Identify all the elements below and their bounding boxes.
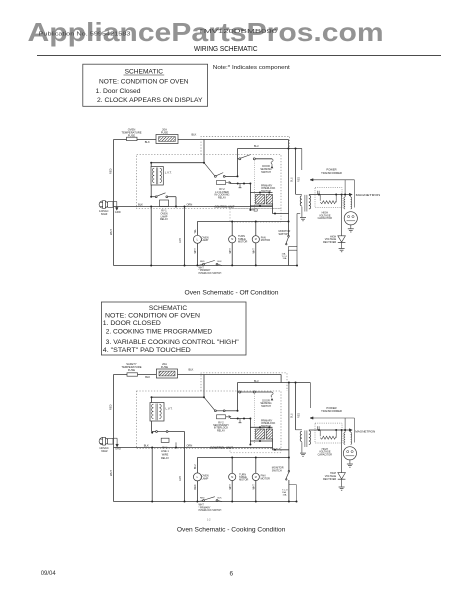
svg-text:GRY: GRY — [179, 237, 182, 243]
svg-text:WHT: WHT — [109, 470, 113, 476]
svg-text:FUSE: FUSE — [128, 368, 135, 372]
svg-text:MOTOR: MOTOR — [239, 479, 248, 482]
svg-text:ORN: ORN — [187, 202, 193, 206]
svg-text:BLK: BLK — [144, 443, 149, 447]
svg-text:BLK: BLK — [145, 140, 150, 144]
svg-text:RED: RED — [195, 484, 197, 489]
svg-text:WHT: WHT — [195, 248, 197, 254]
svg-text:MAGNETRON: MAGNETRON — [355, 430, 375, 434]
svg-text:1. DOOR CLOSED: 1. DOOR CLOSED — [103, 320, 161, 327]
svg-text:MOTOR: MOTOR — [261, 477, 270, 480]
svg-text:LAMP: LAMP — [202, 239, 209, 242]
svg-text:TMV120DBMB090: TMV120DBMB090 — [198, 29, 277, 35]
svg-text:INTERLOCK SWITCH: INTERLOCK SWITCH — [199, 273, 222, 275]
svg-text:MOTOR: MOTOR — [261, 239, 270, 242]
svg-text:15A: 15A — [283, 257, 287, 260]
svg-text:BLK: BLK — [218, 261, 223, 263]
svg-text:LAMP: LAMP — [202, 477, 209, 480]
svg-text:SCHEMATIC: SCHEMATIC — [125, 69, 164, 76]
svg-text:WHT: WHT — [109, 229, 113, 235]
svg-text:RELAY: RELAY — [218, 196, 226, 199]
svg-text:RECTIFIER: RECTIFIER — [323, 478, 336, 481]
svg-text:SWITCH: SWITCH — [279, 233, 289, 236]
svg-text:RED: RED — [297, 413, 300, 418]
svg-text:GRD: GRD — [115, 210, 121, 214]
svg-text:POWER: POWER — [326, 406, 336, 410]
svg-text:WHT: WHT — [199, 505, 205, 507]
svg-text:RELAY: RELAY — [217, 429, 225, 432]
svg-text:RED: RED — [109, 404, 113, 410]
svg-text:BLU: BLU — [195, 464, 197, 469]
svg-text:1. Door Closed: 1. Door Closed — [96, 88, 141, 95]
svg-text:CAPACITOR: CAPACITOR — [318, 454, 333, 457]
svg-text:BLK: BLK — [138, 202, 143, 206]
svg-text:15A: 15A — [283, 493, 287, 496]
svg-text:TRANSFORMER: TRANSFORMER — [321, 171, 342, 175]
svg-text:CONTROL UNIT: CONTROL UNIT — [210, 446, 233, 450]
svg-text:BLK: BLK — [218, 498, 223, 500]
svg-text:FUSE: FUSE — [161, 365, 168, 369]
svg-text:Note:* Indicates component: Note:* Indicates component — [213, 65, 291, 71]
svg-text:SWITCH: SWITCH — [261, 171, 271, 174]
svg-text:T.C.O: T.C.O — [282, 489, 288, 491]
svg-text:Oven Schematic - Cooking Condi: Oven Schematic - Cooking Condition — [177, 527, 286, 534]
svg-text:WHT: WHT — [254, 484, 256, 490]
svg-text:FUSE: FUSE — [161, 131, 168, 135]
svg-text:ORN: ORN — [187, 443, 193, 447]
svg-text:4. "START" PAD TOUCHED: 4. "START" PAD TOUCHED — [103, 347, 191, 354]
svg-text:SCHEMATIC: SCHEMATIC — [149, 305, 188, 312]
svg-text:* PRIMARY: * PRIMARY — [199, 269, 211, 272]
svg-text:M: M — [255, 238, 257, 241]
svg-text:BLK: BLK — [145, 375, 150, 379]
svg-text:GRD: GRD — [115, 447, 121, 451]
svg-text:SWITCH: SWITCH — [272, 470, 282, 473]
svg-text:GRY: GRY — [179, 475, 182, 481]
svg-text:RED: RED — [200, 498, 205, 500]
svg-text:60HZ: 60HZ — [101, 212, 108, 216]
svg-text:NOTE: CONDITION OF OVEN: NOTE: CONDITION OF OVEN — [99, 78, 189, 85]
svg-text:RED: RED — [108, 168, 112, 174]
svg-text:TRANSFORMER: TRANSFORMER — [321, 409, 342, 413]
svg-text:RELAY: RELAY — [160, 218, 168, 221]
svg-text:Publication No. 5995421583: Publication No. 5995421583 — [39, 32, 131, 38]
svg-text:WHT: WHT — [230, 484, 232, 490]
svg-text:RELAY: RELAY — [161, 457, 169, 460]
svg-text:6: 6 — [230, 570, 234, 577]
svg-text:MAGNETRON: MAGNETRON — [356, 193, 381, 197]
svg-text:YEL: YEL — [195, 228, 197, 233]
svg-text:15A: 15A — [282, 252, 286, 255]
svg-text:BLU: BLU — [290, 177, 293, 182]
svg-text:2. COOKING TIME PROGRAMMED: 2. COOKING TIME PROGRAMMED — [106, 329, 213, 336]
svg-text:BLU: BLU — [254, 145, 259, 148]
svg-text:BLK: BLK — [189, 368, 194, 372]
svg-text:M: M — [231, 476, 233, 479]
svg-text:POWER: POWER — [326, 168, 336, 172]
svg-text:BLU: BLU — [290, 413, 293, 418]
svg-text:M: M — [231, 238, 233, 241]
svg-text:NOTE: CONDITION OF OVEN: NOTE: CONDITION OF OVEN — [105, 313, 200, 320]
svg-text:2. CLOCK APPEARS ON DISPLAY: 2. CLOCK APPEARS ON DISPLAY — [97, 97, 203, 104]
svg-text:M: M — [255, 476, 257, 479]
svg-text:BLK: BLK — [192, 133, 197, 137]
svg-text:09/04: 09/04 — [41, 571, 57, 577]
svg-text:RED: RED — [297, 177, 300, 182]
svg-text:WHT: WHT — [254, 248, 256, 254]
svg-text:RED: RED — [200, 261, 205, 263]
svg-text:3. VARIABLE COOKING CONTROL "H: 3. VARIABLE COOKING CONTROL "HIGH" — [106, 339, 240, 346]
svg-text:CONTROL UNIT: CONTROL UNIT — [215, 205, 235, 209]
svg-text:FUSE: FUSE — [128, 133, 135, 137]
svg-text:WIRING SCHEMATIC: WIRING SCHEMATIC — [194, 46, 258, 53]
svg-text:L.V.T.: L.V.T. — [165, 171, 172, 175]
svg-text:RECTIFIER: RECTIFIER — [323, 241, 336, 244]
svg-text:* PRIMARY: * PRIMARY — [199, 506, 211, 509]
svg-text:SWITCH: SWITCH — [261, 405, 271, 408]
svg-text:L.V.T.: L.V.T. — [166, 407, 173, 411]
svg-text:INTERLOCK SWITCH: INTERLOCK SWITCH — [199, 510, 222, 512]
svg-text:WHT: WHT — [230, 248, 232, 254]
svg-text:Oven Schematic - Off Condition: Oven Schematic - Off Condition — [185, 289, 279, 296]
svg-text:BLU: BLU — [254, 380, 259, 383]
svg-text:CAPACITOR: CAPACITOR — [318, 217, 333, 220]
svg-text:60HZ: 60HZ — [101, 449, 108, 453]
svg-text:WHT: WHT — [199, 267, 205, 269]
svg-text:MOTOR: MOTOR — [238, 240, 247, 243]
